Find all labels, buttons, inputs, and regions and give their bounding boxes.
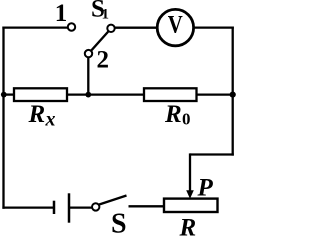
svg-text:2: 2 bbox=[97, 47, 110, 74]
rheostat R bbox=[164, 199, 218, 212]
svg-text:V: V bbox=[168, 12, 183, 39]
wire: top-left horizontal to contact 1 bbox=[2, 26, 68, 28]
wire: bottom-left horizontal to battery bbox=[2, 206, 54, 208]
svg-text:1: 1 bbox=[55, 0, 68, 27]
svg-text:R: R bbox=[164, 101, 182, 128]
wire: switch S to rheostat bbox=[129, 205, 165, 207]
node contact 2 (switch S1 throw 2) bbox=[85, 50, 92, 57]
wire: right-side step toward wiper bbox=[190, 153, 234, 155]
wire: left vertical bbox=[2, 27, 4, 209]
switch S1 pole contact bbox=[107, 25, 114, 32]
node junction on left rail bbox=[1, 92, 7, 98]
svg-text:x: x bbox=[45, 108, 56, 130]
wire: voltmeter to top-right corner bbox=[193, 26, 234, 28]
battery negative plate (short) bbox=[53, 201, 56, 214]
wire: S1 pole to voltmeter bbox=[115, 27, 158, 29]
voltmeter V bbox=[157, 9, 193, 45]
svg-text:R: R bbox=[28, 101, 46, 128]
battery positive plate (long) bbox=[68, 193, 71, 222]
svg-text:0: 0 bbox=[182, 109, 191, 128]
resistor Rx bbox=[14, 88, 67, 101]
node contact 1 (switch S1 throw 1) bbox=[68, 23, 75, 30]
resistor R0 bbox=[144, 88, 197, 101]
node junction below contact 2 bbox=[85, 92, 91, 98]
node junction on right rail bbox=[230, 92, 236, 98]
wire: battery to switch S bbox=[69, 206, 92, 208]
wire: wiper feed vertical bbox=[189, 153, 191, 191]
switch S blade bbox=[99, 196, 126, 205]
wiper arrow P bbox=[186, 190, 194, 199]
switch S1 blade bbox=[91, 31, 108, 50]
wire: right vertical bbox=[232, 27, 234, 156]
wire: middle rail center segment bbox=[67, 93, 144, 95]
svg-text:1: 1 bbox=[102, 7, 110, 23]
switch S hinge contact bbox=[92, 203, 99, 210]
wire: contact 2 down to middle rail bbox=[87, 57, 89, 95]
wire: middle rail left segment bbox=[4, 93, 15, 95]
svg-text:S: S bbox=[111, 209, 127, 238]
wire: middle rail right segment bbox=[197, 93, 233, 95]
svg-text:R: R bbox=[179, 215, 197, 238]
